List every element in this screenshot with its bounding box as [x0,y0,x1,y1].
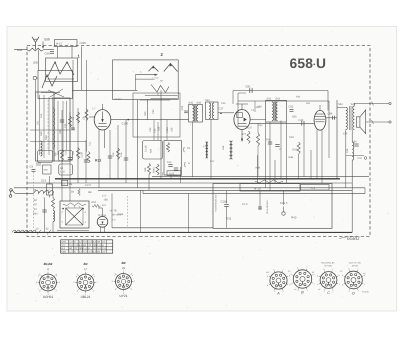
wire v x1925 [192,122,194,177]
svg-text:S43: S43 [197,102,202,105]
capacitor C43a [168,164,172,166]
tube B3 grids [316,113,325,115]
tube B2 electrodes [237,113,243,118]
svg-text:C107: C107 [85,184,92,187]
bridge diagonals [66,208,84,225]
bus line 5 [143,192,365,194]
tube B1 pins [98,129,100,142]
svg-text:S4B: S4B [44,169,49,172]
box R8 [301,185,330,191]
box volume [164,141,181,176]
speaker [356,117,360,127]
wire v x73 [72,60,74,130]
svg-text:+CTY/BV: +CTY/BV [324,265,333,268]
svg-text:R15: R15 [112,152,115,157]
wire v x260 [259,191,261,210]
wire v x126 [125,120,127,183]
shield box B [54,98,70,161]
wire antenna row [14,49,27,51]
wire v x2987 [298,154,300,179]
table frame [61,240,113,253]
wire v x3525 [351,130,353,143]
svg-text:C27: C27 [219,108,224,111]
svg-text:C: C [327,291,330,295]
wire v x337 [336,100,338,179]
svg-text:B4: B4 [122,261,126,265]
IF2 primary [209,103,211,118]
osc coil S20 arrows [149,66,159,71]
box A inner lines [39,95,41,155]
tube B2 pins [241,130,243,142]
svg-text:S51: S51 [306,102,311,105]
capacitor C43b [174,167,178,169]
svg-text:C11: C11 [89,141,92,146]
svg-text:N·15: N·15 [254,187,261,191]
wire v x171 [170,175,172,179]
mains cord [16,192,34,194]
wire top y90 [72,89,138,91]
svg-text:≈C·7B: ≈C·7B [110,210,117,213]
svg-text:R40: R40 [291,216,297,220]
wire v x2657 [265,122,267,188]
socket B [293,270,311,288]
tone box outer [213,184,332,229]
wire v x99 [98,142,100,188]
svg-text:C42: C42 [299,119,304,122]
bridge resistor [63,203,86,206]
socket B4 UY21 [116,274,132,290]
svg-text:S46: S46 [222,145,225,150]
svg-text:1B2: 1B2 [258,106,263,109]
shield box A [36,92,55,161]
gang dashed [47,100,49,150]
resistor R38 [148,164,151,175]
svg-text:C19: C19 [41,179,47,183]
wire v x1405 [140,190,142,232]
wire feedback [233,90,328,92]
wire v x2865 [285,122,287,183]
coil pointer 2 [48,90,64,97]
table rows [61,242,113,244]
resistor R36 [297,142,300,154]
svg-text:C8: C8 [83,116,86,120]
wire v x270 [269,122,271,190]
wire v x154 [153,120,155,141]
svg-text:R36: R36 [293,149,298,152]
resistor R3 element [78,189,80,196]
rail scallops [12,230,36,232]
svg-text:C18: C18 [120,152,123,157]
svg-text:17: 17 [84,268,87,271]
svg-text:C10: C10 [65,150,68,155]
switch box M-ET [55,40,78,47]
tube B2 top wire [232,91,234,105]
dashed schematic border [27,46,370,237]
capacitor 17 [275,144,279,146]
field coil S76 [352,142,354,160]
svg-text:R62: R62 [92,201,97,204]
svg-text:R90: R90 [33,213,38,216]
svg-text:R13: R13 [95,159,101,163]
svg-text:S63: S63 [276,97,281,100]
tube B3 pins [316,130,318,140]
wire det [250,122,314,124]
resistor on N15 wire [255,180,283,183]
wire box drops [57,47,59,59]
svg-text:S13: S13 [45,135,48,140]
bus line 1 [152,175,369,177]
svg-text:S62: S62 [267,97,272,100]
wire v x211 [210,120,212,180]
svg-text:C86: C86 [328,113,333,116]
svg-text:{: { [184,162,186,168]
IF1 primary S42 [193,106,195,121]
oscillator box [113,60,179,100]
svg-text:AV,CTY+,BV: AV,CTY+,BV [349,262,361,265]
socket D [345,271,363,289]
IF2 box [206,102,219,120]
svg-text:C26: C26 [181,105,184,110]
bus line 2 [27,182,352,184]
terminal wire 2 [366,121,389,123]
bus line dark [55,178,340,180]
box S62 small [167,171,181,176]
node grid wire [111,119,189,121]
resistor R90 [52,198,55,210]
svg-text:1B4: 1B4 [104,199,109,202]
wire v x317 [316,140,318,179]
svg-text:S76: S76 [346,148,349,153]
coil S14 [41,141,43,156]
svg-text:{: { [183,147,185,153]
bus line 3 [14,187,365,189]
svg-text:R11: R11 [72,150,75,155]
svg-text:C81: C81 [246,85,252,89]
wire plate [326,117,337,119]
svg-text:S.10B: S.10B [145,145,148,152]
svg-text:(28): (28) [33,61,38,65]
svg-text:C6V: C6V [62,251,67,254]
svg-text:R9: R9 [55,152,58,156]
resistor R29 [257,133,260,146]
antenna [35,43,37,50]
tube B4 UY21 [97,216,108,227]
svg-text:R38: R38 [144,167,147,172]
svg-text:S15: S15 [40,113,43,118]
wire b2 to if3 [250,118,266,120]
IF3 secondary S63 [276,102,278,121]
svg-text:C109: C109 [118,213,124,216]
svg-text:658: 658 [290,56,314,71]
choke S46 [230,141,232,159]
ground rail [14,231,352,233]
resistor R30 [167,143,170,153]
wire v x311 [310,150,312,179]
svg-text:P10248: P10248 [362,291,369,294]
svg-text:R98: R98 [17,48,23,52]
svg-text:AFVLAKKING: AFVLAKKING [266,200,269,214]
svg-text:C41.5: C41.5 [280,201,288,205]
svg-text:AV+BV: AV+BV [352,265,359,268]
wire v x62 [61,110,63,201]
svg-text:C33: C33 [149,127,152,132]
socket C [320,272,337,289]
svg-text:1B3: 1B3 [292,116,297,119]
capacitor C42 [301,121,303,126]
wire prim bottom [345,130,347,188]
svg-text:S44: S44 [205,99,210,102]
resistor R9 [61,150,64,162]
svg-text:R20: R20 [144,111,147,116]
coil S1 arrows [48,62,74,76]
wire v x322 [321,151,323,183]
resistor R62 [92,204,101,207]
box B inner lines [57,101,59,155]
wire v x180 [180,167,182,183]
wire v x18875 [188,193,190,232]
svg-text:R27: R27 [242,133,247,136]
wire feedback drop [327,91,329,111]
terminal wire 1 [356,103,389,105]
IF3 core [273,102,275,122]
resistor R34A [156,164,159,175]
svg-text:S41: S41 [338,103,343,106]
transformer S41 [346,107,348,129]
capacitor C81 [249,88,251,93]
svg-text:Y33A: Y33A [166,127,169,133]
can S4 T02 [59,164,73,175]
IF3 box [266,100,287,122]
resistor R11 [77,148,80,160]
wire v x70 [69,112,71,201]
svg-text:S16: S16 [59,129,62,134]
box S4B2 [43,165,52,174]
svg-text:C43: C43 [167,161,172,164]
wire IF to B2 [218,112,234,114]
wire v x281 [280,121,282,180]
capacitor C7 [71,127,75,129]
tube B2 UCH21 [234,110,250,130]
svg-text:C10: C10 [358,157,363,160]
socket B3 UBL21 [77,274,94,291]
wire v x86 [85,140,87,183]
svg-text:C39: C39 [171,127,174,132]
wire v x118 [117,125,119,179]
bus line 4 [98,189,352,191]
osc bottom line [140,99,170,101]
svg-text:R17: R17 [210,160,215,163]
resistor R13 [87,152,90,164]
svg-text:C4·5: C4·5 [242,203,248,206]
svg-text:D: D [352,291,355,295]
tube B4 electrodes [100,219,106,221]
svg-text:29: 29 [121,267,125,270]
resistor R27 [247,131,250,144]
svg-text:C37: C37 [248,127,253,130]
socket B1B2 UCH21 [40,274,57,291]
svg-text:TOONREGELING: TOONREGELING [215,194,218,212]
IF3 primary S62 [272,102,274,121]
IF1 secondary S43 [196,106,198,121]
svg-text:7.7: 7.7 [92,108,96,111]
svg-text:C52: C52 [258,124,263,127]
terminal circle [33,76,36,79]
svg-text:↓: ↓ [68,43,69,46]
svg-text:R2B: R2B [256,167,261,170]
svg-text:S12: S12 [40,131,43,136]
box C2 on bus [62,180,68,185]
wire bridge tube [98,207,103,209]
svg-text:B1,B2: B1,B2 [44,262,53,266]
wire prim top [337,106,346,108]
antenna coil box 2 [38,71,73,99]
svg-text:UY21: UY21 [120,294,128,298]
svg-text:C4: C4 [30,165,34,169]
IF2 secondary [212,103,214,118]
svg-text:C30: C30 [152,109,155,114]
svg-text:≈C95: ≈C95 [79,41,86,45]
transformer core [349,106,351,130]
tube B1 electrodes [102,112,104,122]
osc bottom wires [145,95,178,97]
heater coil E1 [53,211,55,222]
can S4A [38,151,53,163]
AF shield box [133,93,180,137]
svg-text:S98: S98 [44,38,50,42]
wire s42 top [353,104,355,107]
coil S13 [53,108,55,148]
svg-text:7.2: 7.2 [251,109,255,112]
svg-text:UBL21: UBL21 [81,295,91,299]
svg-text:UCH21: UCH21 [43,295,54,299]
svg-text:R31: R31 [226,217,232,221]
svg-text:C92: C92 [289,136,294,139]
IF1 core [194,105,196,122]
IF box outline [238,100,329,102]
tube B3 UBL21 [314,110,326,130]
dashdot x1275 [127,196,129,228]
svg-text:S.62: S.62 [169,173,175,176]
svg-text:C41: C41 [37,120,40,125]
svg-text:U: U [316,56,326,71]
gang divider lines [30,129,70,131]
svg-text:R·9: R·9 [102,204,107,207]
svg-text:658U: 658U [347,236,360,242]
wire v x110 [109,130,111,179]
wire v x1495 [148,175,150,191]
wire v x445 [44,198,46,233]
osc box drop [147,100,149,120]
svg-text:R·8: R·8 [311,187,316,190]
svg-text:M·ET: M·ET [56,43,63,46]
svg-text:A: A [276,292,280,296]
svg-text:BV,UCH21,BV: BV,UCH21,BV [321,262,335,265]
tube B1 UCH21 [94,110,111,130]
can S4B [59,151,73,162]
svg-text:C82: C82 [289,106,294,109]
svg-text:C·5: C·5 [102,195,107,198]
bridge box [60,201,89,228]
wire v x78 [77,108,79,183]
wire v x275 [274,160,276,184]
wire v x2575 [257,155,259,184]
svg-text:1.02: 1.02 [60,171,65,174]
osc switch contact a [135,74,157,76]
svg-text:C100: C100 [122,122,129,126]
tube B4 pins [99,227,101,233]
chassis dashed line [33,172,35,229]
svg-text:R24: R24 [296,96,301,99]
svg-text:C169: C169 [115,98,122,101]
svg-text:R3B: R3B [289,156,294,159]
box N15 [240,184,300,192]
capacitor C10 [68,157,72,159]
can S10B [143,141,163,160]
capacitor C17 [84,159,88,161]
IF1 box [189,105,203,123]
svg-text:C35: C35 [221,102,226,105]
svg-text:S42: S42 [189,102,194,105]
osc switch contact b [135,78,154,80]
svg-text:67E: 67E [343,133,348,136]
svg-text:g: g [76,275,77,278]
table cols [68,240,70,253]
wire v x865 [86,60,88,152]
choke S45 [206,142,208,158]
svg-text:C98: C98 [45,52,51,56]
resistor R98 [27,48,45,51]
wire v x161 [160,90,162,179]
coil S2 arrows [42,75,57,88]
osc padder zigzag [151,85,169,93]
osc coil S21 arrows [164,63,178,71]
transformer S42 [353,106,355,129]
svg-text:C17: C17 [81,153,84,158]
bus line 6 [112,227,213,229]
socket A [270,272,287,289]
svg-text:C6V: C6V [62,241,67,244]
antenna coil box 1 [46,58,78,82]
svg-text:F7B: F7B [203,146,208,149]
svg-text:R34A: R34A [153,167,156,173]
trimmer C1 [36,162,41,164]
wire v x304 [303,126,305,178]
svg-text:R28: R28 [150,148,153,153]
svg-text:g: g [38,274,39,277]
arrow down [42,42,44,49]
mains plug [10,189,13,192]
svg-text:B3: B3 [84,262,88,266]
